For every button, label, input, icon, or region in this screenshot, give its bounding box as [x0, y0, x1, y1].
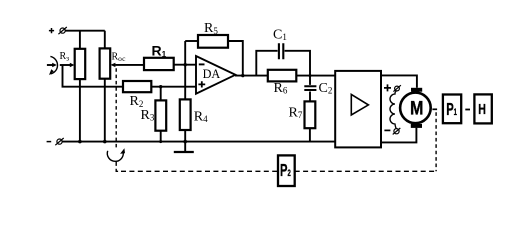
wire op-amp output [235, 75, 268, 77]
wire C1 branch left [256, 51, 277, 76]
wire R7 bottom lead [309, 128, 311, 141]
wire amp to motor top [381, 75, 417, 87]
ground [174, 151, 194, 153]
resistor R5 [198, 35, 228, 48]
input shaft arrow [47, 64, 53, 66]
wire R3 bottom lead [160, 131, 162, 142]
motor brush bottom [411, 124, 422, 128]
svg-text:DA: DA [203, 67, 221, 81]
wire Rz bottom lead [79, 79, 81, 142]
capacitor C1 [279, 43, 283, 59]
rotation arc on feedback shaft [107, 151, 123, 162]
op-amp plus sign [198, 81, 205, 87]
wire bottom common rail [62, 141, 335, 143]
op-amp DA [196, 56, 235, 94]
wire Rz wiper to R2 [63, 65, 124, 87]
junction node dots [78, 63, 311, 143]
svg-text:Rос: Rос [112, 52, 127, 64]
svg-text:H: H [478, 100, 486, 117]
power amplifier triangle [351, 94, 368, 115]
resistor R3 [155, 100, 166, 130]
motor M circle [400, 93, 431, 124]
wire Roc bottom lead [104, 79, 106, 142]
mechanical dashed link from Roc wiper [115, 68, 117, 147]
wire R5 left lead [185, 40, 198, 42]
wire R5 feedback vertical [184, 41, 186, 99]
wire top supply rail [65, 30, 105, 32]
wire Roc top lead [104, 31, 106, 49]
capacitor C2 [304, 86, 316, 90]
wire R5 right lead [228, 41, 243, 76]
potentiometer Roc body [100, 48, 111, 78]
op-amp minus sign [199, 63, 205, 65]
wire R1 to inverting node [174, 64, 196, 66]
potentiometer Rz body [75, 49, 86, 79]
terminal plus excitation [384, 84, 391, 91]
terminal socket excitation top [393, 85, 401, 91]
mechanical link P1 to H [465, 109, 470, 111]
dashed link P2 to motor shaft [295, 170, 436, 172]
resistor R4 [180, 99, 191, 130]
wire C2 to R7 [309, 92, 311, 102]
wire R3 top lead [160, 87, 162, 101]
resistor R7 [305, 101, 316, 128]
box H [474, 94, 491, 123]
mechanical link motor to P1 [432, 108, 437, 110]
svg-text:M: M [410, 97, 423, 119]
power amplifier box [335, 71, 381, 147]
gearbox box P2 [278, 155, 295, 186]
wire C1 branch right [285, 51, 310, 85]
wire Rz top lead [79, 31, 81, 49]
terminal socket excitation bottom [393, 128, 401, 134]
dashed vertical shaft link at motor [435, 112, 437, 171]
motor brush top [411, 88, 422, 92]
wire R6 right lead [296, 75, 335, 77]
svg-text:Rз: Rз [60, 51, 70, 63]
input rotation arc [50, 56, 57, 74]
wiper arrow of Roc [115, 64, 144, 66]
terminal minus bottom-left supply [47, 141, 52, 143]
resistor R6 [268, 70, 297, 82]
field winding [390, 91, 396, 129]
terminal plus top-left supply [49, 28, 54, 33]
dashed link to gearbox P2 [121, 170, 278, 172]
resistor R1 [144, 58, 174, 70]
terminal socket top left [58, 27, 66, 34]
wiper arrow of Rz [60, 64, 70, 66]
wire R2 to noninverting input [151, 86, 196, 88]
box P1 [443, 95, 461, 124]
wire R4 bottom lead [184, 130, 186, 151]
terminal minus excitation [384, 129, 390, 131]
resistor R2 [123, 81, 151, 92]
terminal socket bottom left [55, 138, 63, 145]
wire amp to motor bottom [381, 128, 416, 143]
